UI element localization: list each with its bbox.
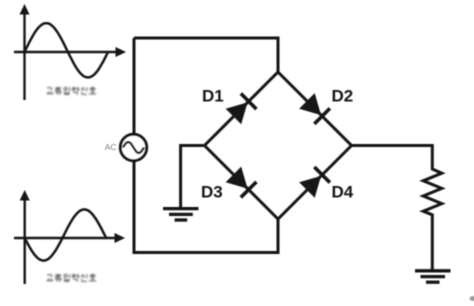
svg-text:D1: D1 (202, 87, 224, 106)
svg-text:AC: AC (105, 142, 117, 152)
svg-text:D2: D2 (332, 87, 354, 106)
svg-text:D4: D4 (332, 183, 354, 202)
svg-text:D3: D3 (201, 183, 223, 202)
